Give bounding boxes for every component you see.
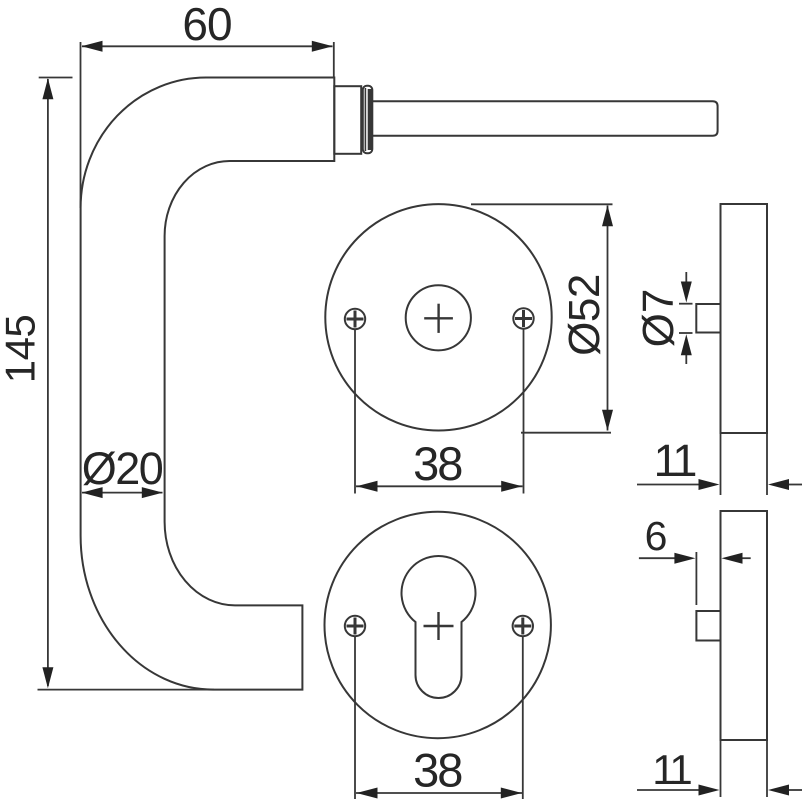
dim 38 bottom line [356, 792, 522, 794]
dim Ø52 line [607, 206, 609, 431]
bottom side view cylinder tab [696, 611, 720, 641]
bottom rosette right screw [513, 616, 533, 636]
top rosette handle hole [406, 285, 471, 350]
dim 38 top line [356, 485, 523, 487]
svg-text:Ø20: Ø20 [82, 443, 163, 494]
dim 60 extension lines [80, 42, 82, 208]
dim 38 bottom arrows [357, 788, 378, 799]
dim 60 arrows [82, 41, 103, 52]
svg-text:145: 145 [0, 315, 44, 384]
dim Ø20 line [82, 492, 163, 494]
lever handle outline [81, 78, 335, 690]
svg-text:38: 38 [413, 437, 462, 490]
spindle rod [372, 101, 717, 136]
dim 6 arrows [674, 553, 695, 564]
dim Ø7 ticks [679, 303, 693, 305]
dim 11 top arrows [699, 479, 720, 490]
top side view rosette body [721, 204, 768, 433]
dim 38 bottom extension lines [354, 637, 356, 799]
dim Ø7 arrows [681, 282, 692, 303]
top rosette center cross [424, 304, 453, 333]
svg-text:Ø7: Ø7 [634, 289, 683, 348]
bottom rosette outer circle [325, 512, 551, 738]
svg-text:11: 11 [652, 746, 691, 793]
top rosette right screw [513, 308, 533, 328]
dim 11 top arrow lines [637, 484, 700, 486]
dim 145 bottom tick [38, 689, 215, 691]
bottom rosette left screw [345, 616, 365, 636]
dim 6 arrow lines [639, 557, 676, 559]
dim 38 top arrows [357, 481, 378, 492]
bottom rosette euro cylinder hole [401, 556, 475, 698]
dim 145 arrows [42, 78, 53, 99]
dim 145 top tick [39, 77, 73, 79]
top rosette outer circle [325, 204, 551, 430]
dim 60 line [82, 45, 333, 47]
dim Ø52 arrows [602, 205, 613, 226]
dim 6 extension line [695, 552, 697, 605]
dim Ø7 arrow lines [685, 272, 687, 295]
dim Ø52 extension lines [471, 203, 613, 205]
svg-text:38: 38 [413, 744, 462, 797]
svg-text:Ø52: Ø52 [560, 274, 609, 356]
handle neck [334, 86, 361, 154]
dim 11 bottom extension lines [720, 741, 722, 797]
top side view spindle hub tab [696, 304, 720, 333]
dim Ø20 arrows [82, 487, 103, 498]
top rosette left screw [345, 309, 365, 329]
dim 11 bottom arrows [699, 785, 720, 796]
bottom side view rosette body [721, 511, 768, 740]
bottom rosette center cross [424, 612, 454, 640]
spindle collar [363, 86, 373, 153]
svg-text:11: 11 [654, 435, 696, 486]
svg-text:60: 60 [182, 0, 231, 50]
dim 11 bottom arrow lines [637, 789, 700, 791]
dim 11 top extension lines [720, 434, 722, 495]
svg-text:6: 6 [645, 513, 668, 559]
dim 145 line [47, 79, 49, 686]
dim 38 top extension lines [354, 330, 356, 494]
